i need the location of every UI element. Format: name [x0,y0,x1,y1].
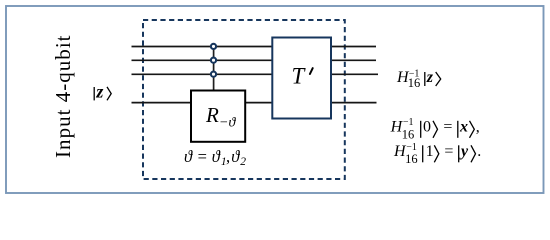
svg-text:1: 1 [426,143,434,160]
output state label H16^-1 |z> [396,69,441,90]
wire q1 right segment [331,46,376,48]
svg-text:2: 2 [240,156,246,168]
wire q2 left segment [132,59,274,61]
gate R_-theta box [191,91,245,142]
dashed enclosure box [143,20,345,179]
control circle on q3 [211,72,216,77]
equation H16^-1 |1> = |y>. [393,142,481,166]
svg-text:−1: −1 [403,117,414,128]
svg-text:R: R [205,103,219,127]
svg-text:Input 4-qubit: Input 4-qubit [51,34,75,157]
control circle on q1 [211,44,216,49]
vertical control line [213,47,215,91]
svg-text:16: 16 [405,152,418,166]
input ket |z> [94,82,111,102]
wire q1 left segment [132,46,274,48]
theta parameters label [184,147,246,168]
svg-text:.: . [477,143,481,160]
control circle on q2 [211,58,216,63]
svg-text:ϑ: ϑ [212,147,221,166]
svg-text:16: 16 [402,127,415,141]
svg-text:−ϑ: −ϑ [219,115,236,130]
svg-text:x: x [459,119,468,136]
wire q4 left segment [132,102,192,104]
svg-text:,: , [226,147,230,166]
wire q3 left segment [132,73,274,75]
svg-text:ϑ: ϑ [231,147,240,166]
wire q4 middle segment [245,102,273,104]
wire q2 right segment [331,59,376,61]
svg-text:0: 0 [423,119,431,136]
svg-text:y: y [459,143,469,160]
svg-text:z: z [426,69,434,86]
svg-text:ϑ: ϑ [184,147,193,166]
gate T' box [272,38,331,119]
svg-text:16: 16 [408,76,421,90]
svg-text:,: , [476,119,480,136]
svg-text:=: = [443,119,452,136]
wire q3 right segment [331,73,378,75]
equation H16^-1 |0> = |x>, [390,117,480,141]
svg-text:T: T [292,64,307,89]
svg-text:z: z [95,82,103,102]
wire q4 right segment [331,102,377,104]
svg-text:=: = [444,143,453,160]
svg-text:=: = [198,147,207,166]
